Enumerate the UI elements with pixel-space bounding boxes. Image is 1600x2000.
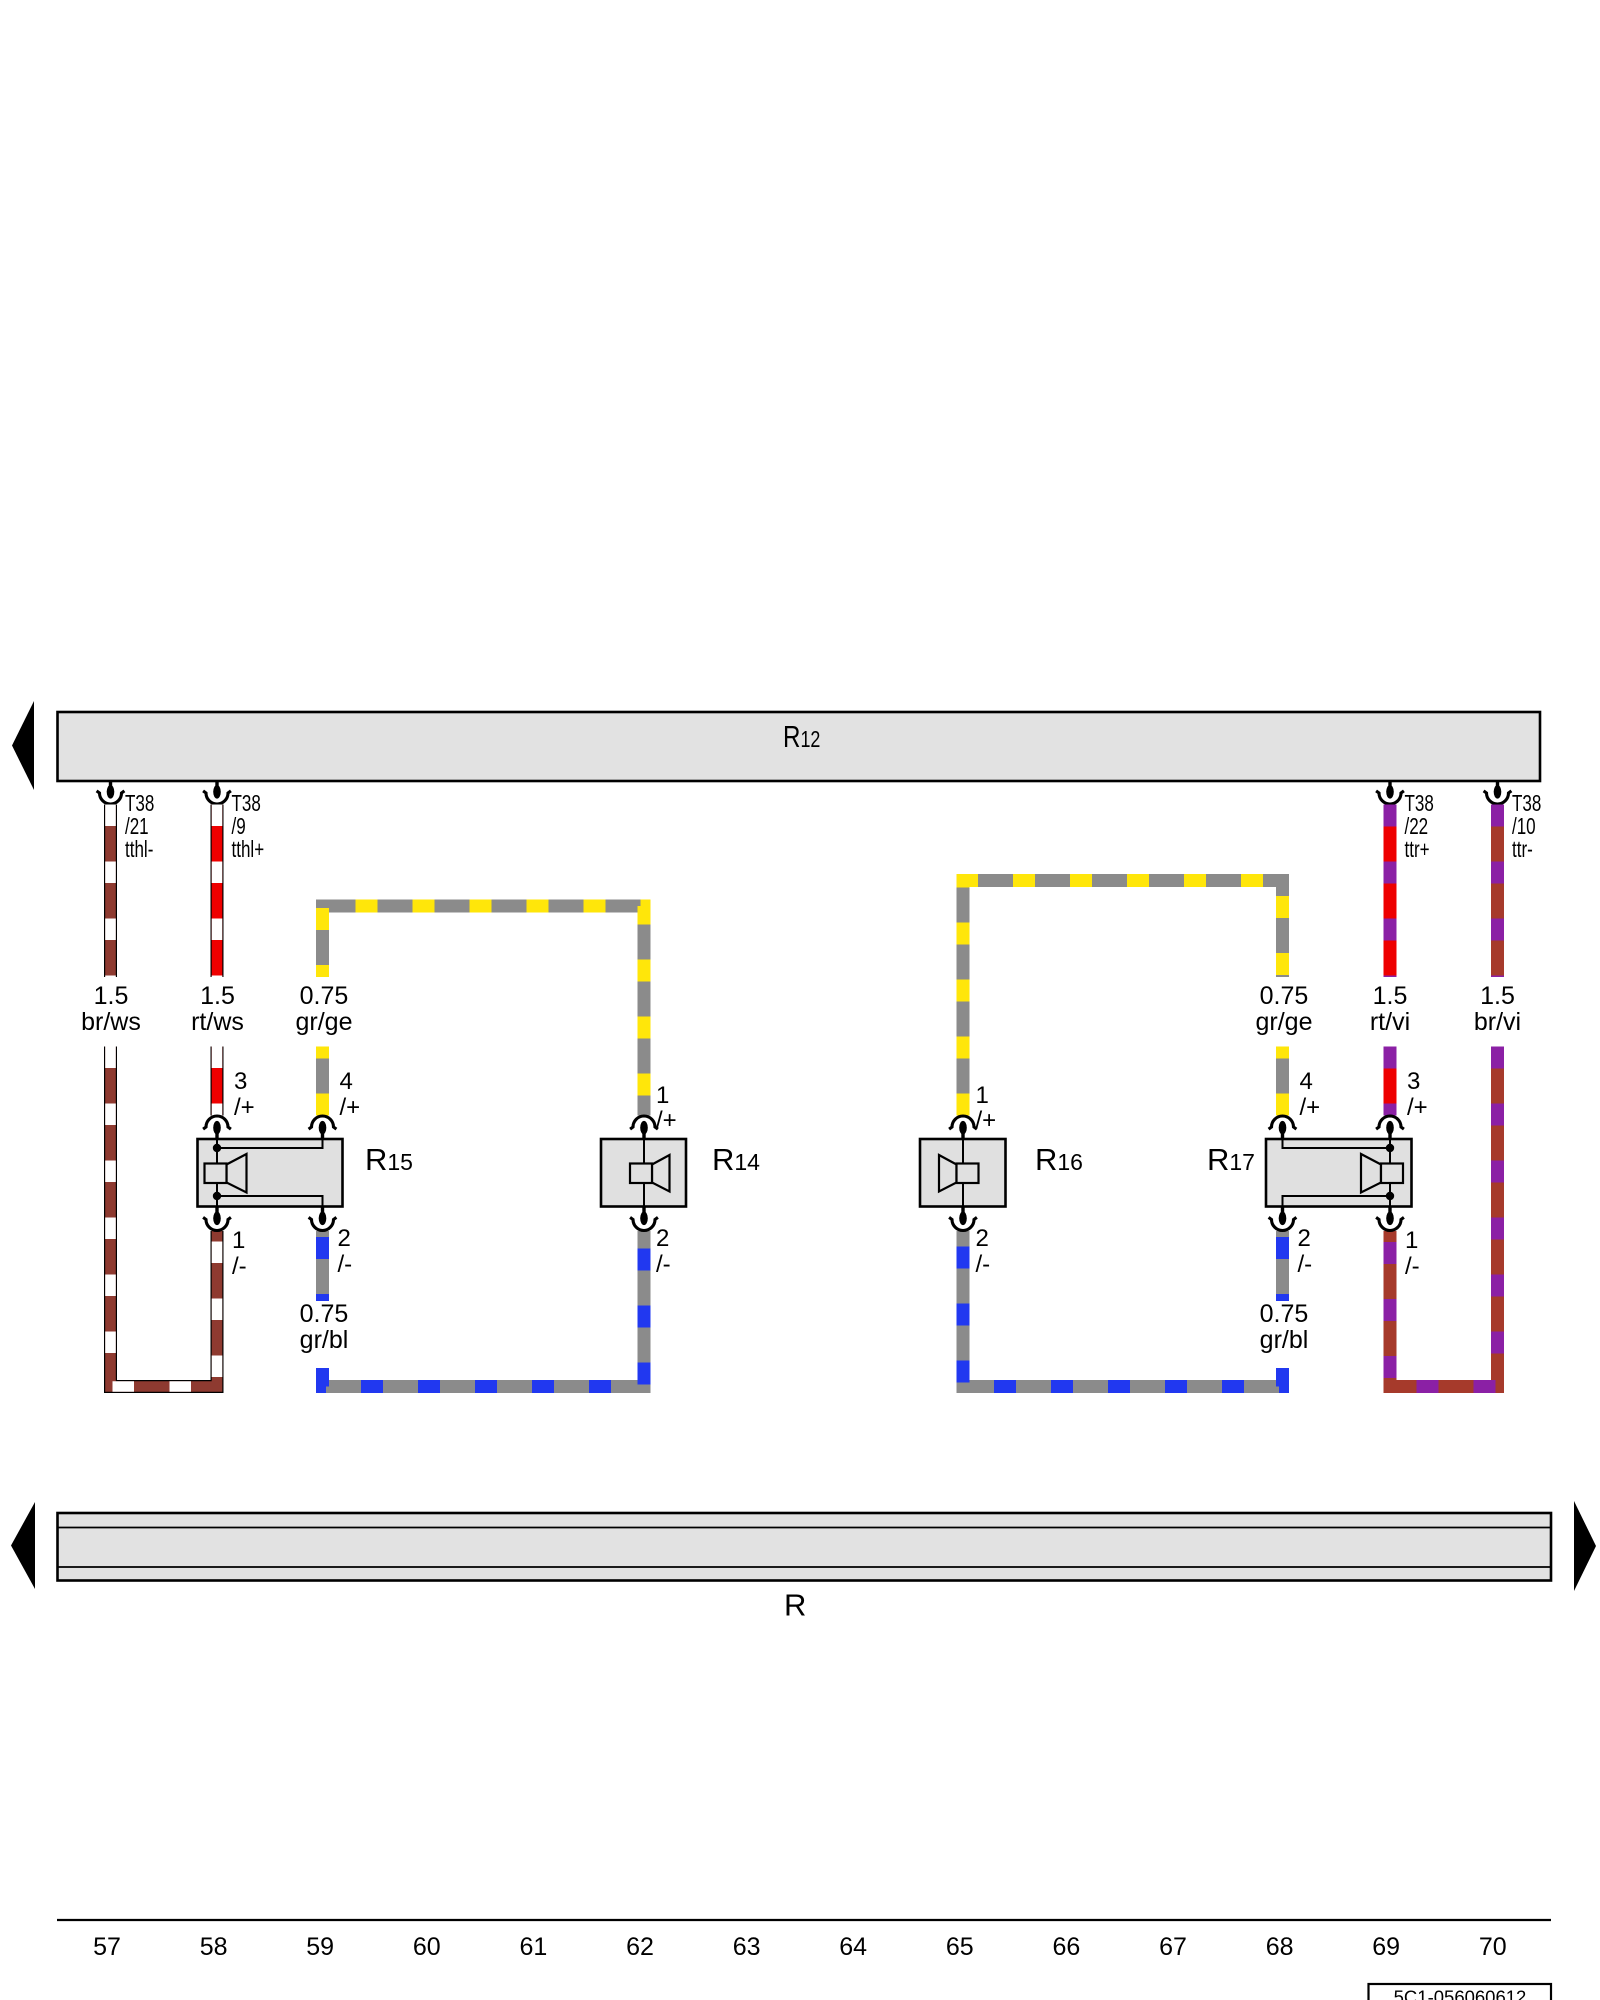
svg-text:57: 57 [93,1933,121,1961]
label wire 1.5 br/ws [81,982,141,1036]
svg-text:69: 69 [1372,1933,1400,1961]
R15 pin 2 connector [309,1207,337,1231]
connector T38/9 on R12 [203,781,231,804]
speaker R16 body [920,1139,1006,1207]
svg-text:gr/bl: gr/bl [300,1326,349,1354]
svg-text:1.5: 1.5 [200,982,235,1010]
R16 pin 1 connector [949,1116,977,1140]
wire gr/ge stub at R17 pin 4 [1276,1047,1289,1116]
R17 internal junction dot upper [1386,1144,1394,1152]
label T38/9 tthl+ [232,792,265,863]
svg-text:tthl-: tthl- [125,838,153,863]
svg-text:/+: /+ [656,1107,677,1134]
continuation arrow left of R12 bar [12,701,34,790]
svg-text:61: 61 [519,1933,547,1961]
svg-text:R: R [784,1588,806,1623]
svg-text:/-: /- [976,1251,991,1278]
continuation arrow left of R bar [11,1502,35,1589]
R17 internal junction dot lower [1386,1192,1394,1200]
svg-text:0.75: 0.75 [1260,982,1309,1010]
R15 pin 4 connector [309,1116,337,1140]
svg-text:1.5: 1.5 [1373,982,1408,1010]
svg-text:gr/ge: gr/ge [296,1008,353,1036]
svg-text:/+: /+ [234,1094,255,1121]
svg-text:2: 2 [976,1225,989,1252]
svg-text:/+: /+ [340,1094,361,1121]
R16 internal connection [962,1139,964,1207]
svg-text:3: 3 [234,1068,247,1095]
speaker R15 body [198,1139,343,1207]
wire rt/vi upper segment (T38/22 down) [1384,805,1397,978]
connector T38/10 on R12 [1484,781,1512,804]
svg-text:/-: /- [338,1251,353,1278]
svg-text:0.75: 0.75 [1260,1300,1309,1328]
svg-text:T38: T38 [1512,792,1541,817]
svg-text:T38: T38 [1405,792,1434,817]
connector T38/22 on R12 [1376,781,1404,804]
wire gr/bl run to R16 pin 2 [963,1231,1283,1387]
svg-text:gr/ge: gr/ge [1256,1008,1313,1036]
svg-text:T38: T38 [232,792,261,817]
R15 speaker symbol [205,1154,247,1193]
ground/antenna rail R bar [58,1513,1552,1581]
R17 pin 2 connector [1269,1207,1297,1231]
label wire 1.5 br/vi [1474,982,1521,1036]
svg-text:1: 1 [656,1082,669,1109]
R16 pin 2 connector [949,1207,977,1231]
pin label R16 pin 1 [976,1082,997,1134]
pin label R15 pin 2 [338,1225,353,1278]
svg-text:63: 63 [733,1933,761,1961]
svg-text:rt/ws: rt/ws [191,1008,244,1036]
wire gr/ge loop R16 pin 1 to R17 [963,881,1283,1116]
R15 pin 1 connector [203,1207,231,1231]
connector T38/21 on R12 [97,781,125,804]
drawing number box 5C1-056060612 [1369,1984,1552,2000]
svg-text:/21: /21 [125,815,149,840]
svg-text:br/vi: br/vi [1474,1008,1521,1036]
svg-text:0.75: 0.75 [300,1300,349,1328]
label T38/10 ttr- [1512,792,1541,863]
svg-text:rt/vi: rt/vi [1370,1008,1410,1036]
pin label R16 pin 2 [976,1225,991,1278]
svg-text:/9: /9 [232,815,246,840]
svg-text:/-: /- [1405,1253,1420,1280]
svg-text:66: 66 [1052,1933,1080,1961]
label T38/22 ttr+ [1405,792,1434,863]
R16 speaker symbol [939,1155,979,1192]
pin label R15 pin 1 [232,1227,247,1280]
pin label R17 pin 3 [1407,1068,1428,1121]
R17 pin 4 connector [1269,1116,1297,1140]
svg-text:68: 68 [1266,1933,1294,1961]
wire gr/bl stub at R17 pin 2 [1276,1231,1289,1301]
svg-text:/22: /22 [1405,815,1429,840]
label wire 1.5 rt/vi [1370,982,1410,1036]
pin label R17 pin 1 [1405,1227,1420,1280]
R17 pin 3 connector [1376,1116,1404,1140]
svg-text:62: 62 [626,1933,654,1961]
R15 internal connections [217,1139,323,1207]
wire br/vi lower segment to R17 pin 1 [1390,1047,1498,1387]
svg-text:5C1-056060612: 5C1-056060612 [1394,1987,1527,2000]
svg-text:/-: /- [1298,1251,1313,1278]
label wire 0.75 gr/ge right [1256,982,1313,1036]
current track numbers 57-70 [93,1933,1507,1961]
svg-text:ttr+: ttr+ [1405,838,1430,863]
svg-text:0.75: 0.75 [300,982,349,1010]
svg-text:4: 4 [340,1068,353,1095]
svg-text:/+: /+ [976,1107,997,1134]
label wire 1.5 rt/ws [191,982,244,1036]
label T38/21 tthl- [125,792,154,863]
svg-text:58: 58 [200,1933,228,1961]
wire br/ws upper segment (T38/21 down) [104,805,117,978]
wire gr/ge stub at R15 pin 4 [316,1047,329,1116]
pin label R17 pin 4 [1300,1068,1321,1121]
svg-text:2: 2 [656,1225,669,1252]
svg-text:3: 3 [1407,1068,1420,1095]
svg-text:br/ws: br/ws [81,1008,141,1036]
svg-text:1: 1 [1405,1227,1418,1254]
wire rt/vi lower segment to R17 pin 3 [1384,1047,1397,1116]
svg-text:67: 67 [1159,1933,1187,1961]
svg-text:59: 59 [306,1933,334,1961]
svg-text:60: 60 [413,1933,441,1961]
current track ruler line [57,1919,1551,1921]
R17 internal connections [1283,1139,1391,1207]
svg-text:/-: /- [232,1253,247,1280]
svg-text:70: 70 [1479,1933,1507,1961]
svg-text:/+: /+ [1300,1094,1321,1121]
wire br/ws lower segment to R15 pin 1 [111,1047,218,1387]
svg-text:T38: T38 [125,792,154,817]
wire gr/ge loop R15 to R14 pin 1 [323,906,645,1116]
svg-text:4: 4 [1300,1068,1313,1095]
svg-text:65: 65 [946,1933,974,1961]
wire gr/bl stub at R15 pin 2 [316,1231,329,1301]
svg-text:ttr-: ttr- [1512,838,1533,863]
svg-text:1: 1 [976,1082,989,1109]
speaker R17 body [1266,1139,1412,1207]
wire gr/bl run to R14 pin 2 [323,1231,645,1387]
pin label R15 pin 3 [234,1068,255,1121]
R17 pin 1 connector [1376,1207,1404,1231]
R14 pin 1 connector [630,1116,658,1140]
svg-text:gr/bl: gr/bl [1260,1326,1309,1354]
svg-text:/-: /- [656,1251,671,1278]
label wire 0.75 gr/ge left [296,982,353,1036]
svg-text:1: 1 [232,1227,245,1254]
svg-text:2: 2 [1298,1225,1311,1252]
wire br/vi upper segment (T38/10 down) [1491,805,1504,978]
R14 pin 2 connector [630,1207,658,1231]
continuation arrow right of R bar [1574,1501,1596,1591]
pin label R15 pin 4 [340,1068,361,1121]
svg-text:2: 2 [338,1225,351,1252]
R14 speaker symbol [630,1155,670,1192]
svg-text:1.5: 1.5 [1480,982,1515,1010]
R17 speaker symbol [1361,1154,1403,1193]
svg-text:64: 64 [839,1933,867,1961]
R15 pin 3 connector [203,1116,231,1140]
svg-text:/10: /10 [1512,815,1536,840]
wire rt/ws lower segment to R15 pin 3 [211,1047,224,1116]
pin label R14 pin 2 [656,1225,671,1278]
svg-text:/+: /+ [1407,1094,1428,1121]
label wire 0.75 gr/bl left [300,1300,349,1354]
label wire 0.75 gr/bl right [1260,1300,1309,1354]
speaker R14 body [601,1139,686,1207]
wire rt/ws upper segment (T38/9 down) [211,805,224,978]
R15 internal junction dot upper [213,1144,221,1152]
svg-text:tthl+: tthl+ [232,838,265,863]
R15 internal junction dot lower [213,1192,221,1200]
svg-text:1.5: 1.5 [94,982,129,1010]
pin label R17 pin 2 [1298,1225,1313,1278]
pin label R14 pin 1 [656,1082,677,1134]
R14 internal connection [643,1139,645,1207]
radio unit R12 bar [58,712,1541,781]
